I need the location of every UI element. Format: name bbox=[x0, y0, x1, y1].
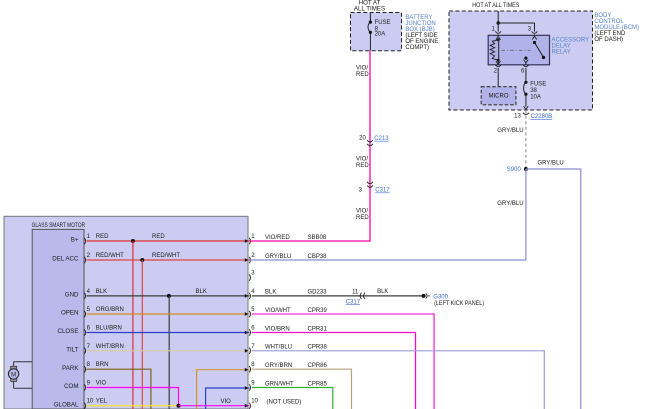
svg-text:C2280B: C2280B bbox=[531, 114, 553, 120]
svg-text:GRY/BLU: GRY/BLU bbox=[497, 201, 523, 207]
svg-text:RED: RED bbox=[96, 234, 109, 240]
svg-text:38: 38 bbox=[530, 88, 537, 94]
svg-text:RELAY: RELAY bbox=[552, 49, 571, 55]
svg-text:RED: RED bbox=[356, 163, 369, 169]
svg-text:VIO: VIO bbox=[96, 381, 107, 387]
svg-text:C317: C317 bbox=[346, 299, 361, 305]
svg-text:GLOBAL: GLOBAL bbox=[54, 401, 79, 408]
svg-text:GRY/BLU: GRY/BLU bbox=[265, 254, 291, 260]
svg-text:10: 10 bbox=[251, 399, 258, 405]
svg-text:CPR86: CPR86 bbox=[308, 363, 328, 369]
svg-text:GRY/BLU: GRY/BLU bbox=[538, 160, 564, 166]
svg-text:CPR39: CPR39 bbox=[308, 308, 328, 314]
svg-text:HOT AT ALL TIMES: HOT AT ALL TIMES bbox=[472, 2, 519, 9]
svg-text:RED: RED bbox=[356, 215, 369, 221]
svg-text:20: 20 bbox=[359, 135, 366, 141]
svg-text:VIO/BRN: VIO/BRN bbox=[265, 326, 290, 332]
svg-text:YEL: YEL bbox=[96, 399, 108, 405]
svg-text:(NOT USED): (NOT USED) bbox=[267, 400, 302, 406]
svg-text:CBP38: CBP38 bbox=[308, 254, 328, 260]
svg-text:20A: 20A bbox=[375, 32, 386, 38]
svg-text:CPR38: CPR38 bbox=[308, 345, 328, 351]
svg-text:BLK: BLK bbox=[96, 289, 107, 295]
svg-text:RED/WHT: RED/WHT bbox=[96, 253, 124, 259]
svg-text:GRY/BRN: GRY/BRN bbox=[265, 363, 292, 369]
svg-text:SBB08: SBB08 bbox=[308, 235, 327, 241]
svg-text:M: M bbox=[11, 372, 16, 378]
svg-text:RED: RED bbox=[152, 234, 165, 240]
svg-text:GLASS SMART MOTOR: GLASS SMART MOTOR bbox=[32, 222, 86, 229]
svg-text:VIO/RED: VIO/RED bbox=[265, 235, 290, 241]
svg-text:BLK: BLK bbox=[377, 289, 388, 295]
svg-text:S900: S900 bbox=[507, 167, 522, 173]
svg-text:VIO/: VIO/ bbox=[356, 156, 368, 162]
svg-text:BLU/BRN: BLU/BRN bbox=[96, 326, 122, 332]
svg-text:WHT/BRN: WHT/BRN bbox=[96, 344, 124, 350]
svg-text:BRN: BRN bbox=[96, 362, 109, 368]
svg-text:DEL ACC: DEL ACC bbox=[52, 256, 79, 263]
svg-text:RED/WHT: RED/WHT bbox=[152, 253, 180, 259]
svg-text:OPEN: OPEN bbox=[61, 310, 79, 317]
svg-text:CPR85: CPR85 bbox=[308, 381, 328, 387]
svg-text:GD233: GD233 bbox=[308, 290, 328, 296]
svg-text:ORG/BRN: ORG/BRN bbox=[96, 307, 124, 313]
svg-text:B+: B+ bbox=[71, 237, 79, 244]
svg-text:COM: COM bbox=[64, 383, 78, 390]
svg-text:C317: C317 bbox=[375, 188, 390, 194]
svg-text:10: 10 bbox=[87, 399, 94, 405]
svg-text:COMPT): COMPT) bbox=[405, 45, 429, 51]
svg-text:(LEFT KICK PANEL): (LEFT KICK PANEL) bbox=[434, 301, 484, 307]
svg-text:OF DASH): OF DASH) bbox=[594, 37, 623, 43]
svg-text:C213: C213 bbox=[374, 136, 389, 142]
svg-text:GND: GND bbox=[65, 292, 79, 299]
svg-text:RED: RED bbox=[356, 72, 369, 78]
svg-text:GRY/BLU: GRY/BLU bbox=[497, 128, 523, 134]
svg-text:VIO/WHT: VIO/WHT bbox=[265, 308, 291, 314]
svg-text:BLK: BLK bbox=[196, 289, 207, 295]
svg-text:CPR31: CPR31 bbox=[308, 326, 328, 332]
svg-text:WHT/BLU: WHT/BLU bbox=[265, 345, 292, 351]
svg-text:10A: 10A bbox=[530, 94, 541, 100]
svg-text:TILT: TILT bbox=[66, 346, 78, 353]
svg-text:VIO/: VIO/ bbox=[356, 209, 368, 215]
svg-text:VIO/: VIO/ bbox=[356, 65, 368, 71]
svg-text:FUSE: FUSE bbox=[530, 82, 546, 88]
svg-text:GRN/WHT: GRN/WHT bbox=[265, 381, 294, 387]
svg-text:BLK: BLK bbox=[265, 290, 276, 296]
svg-text:13: 13 bbox=[514, 114, 521, 120]
svg-text:MICRO: MICRO bbox=[489, 93, 509, 99]
svg-text:11: 11 bbox=[352, 289, 359, 295]
svg-text:CLOSE: CLOSE bbox=[58, 328, 79, 335]
svg-text:PARK: PARK bbox=[62, 365, 79, 372]
svg-text:VIO: VIO bbox=[221, 399, 232, 405]
svg-text:G300: G300 bbox=[433, 294, 448, 300]
svg-text:ALL TIMES: ALL TIMES bbox=[354, 6, 385, 13]
svg-text:FUSE: FUSE bbox=[375, 20, 391, 26]
